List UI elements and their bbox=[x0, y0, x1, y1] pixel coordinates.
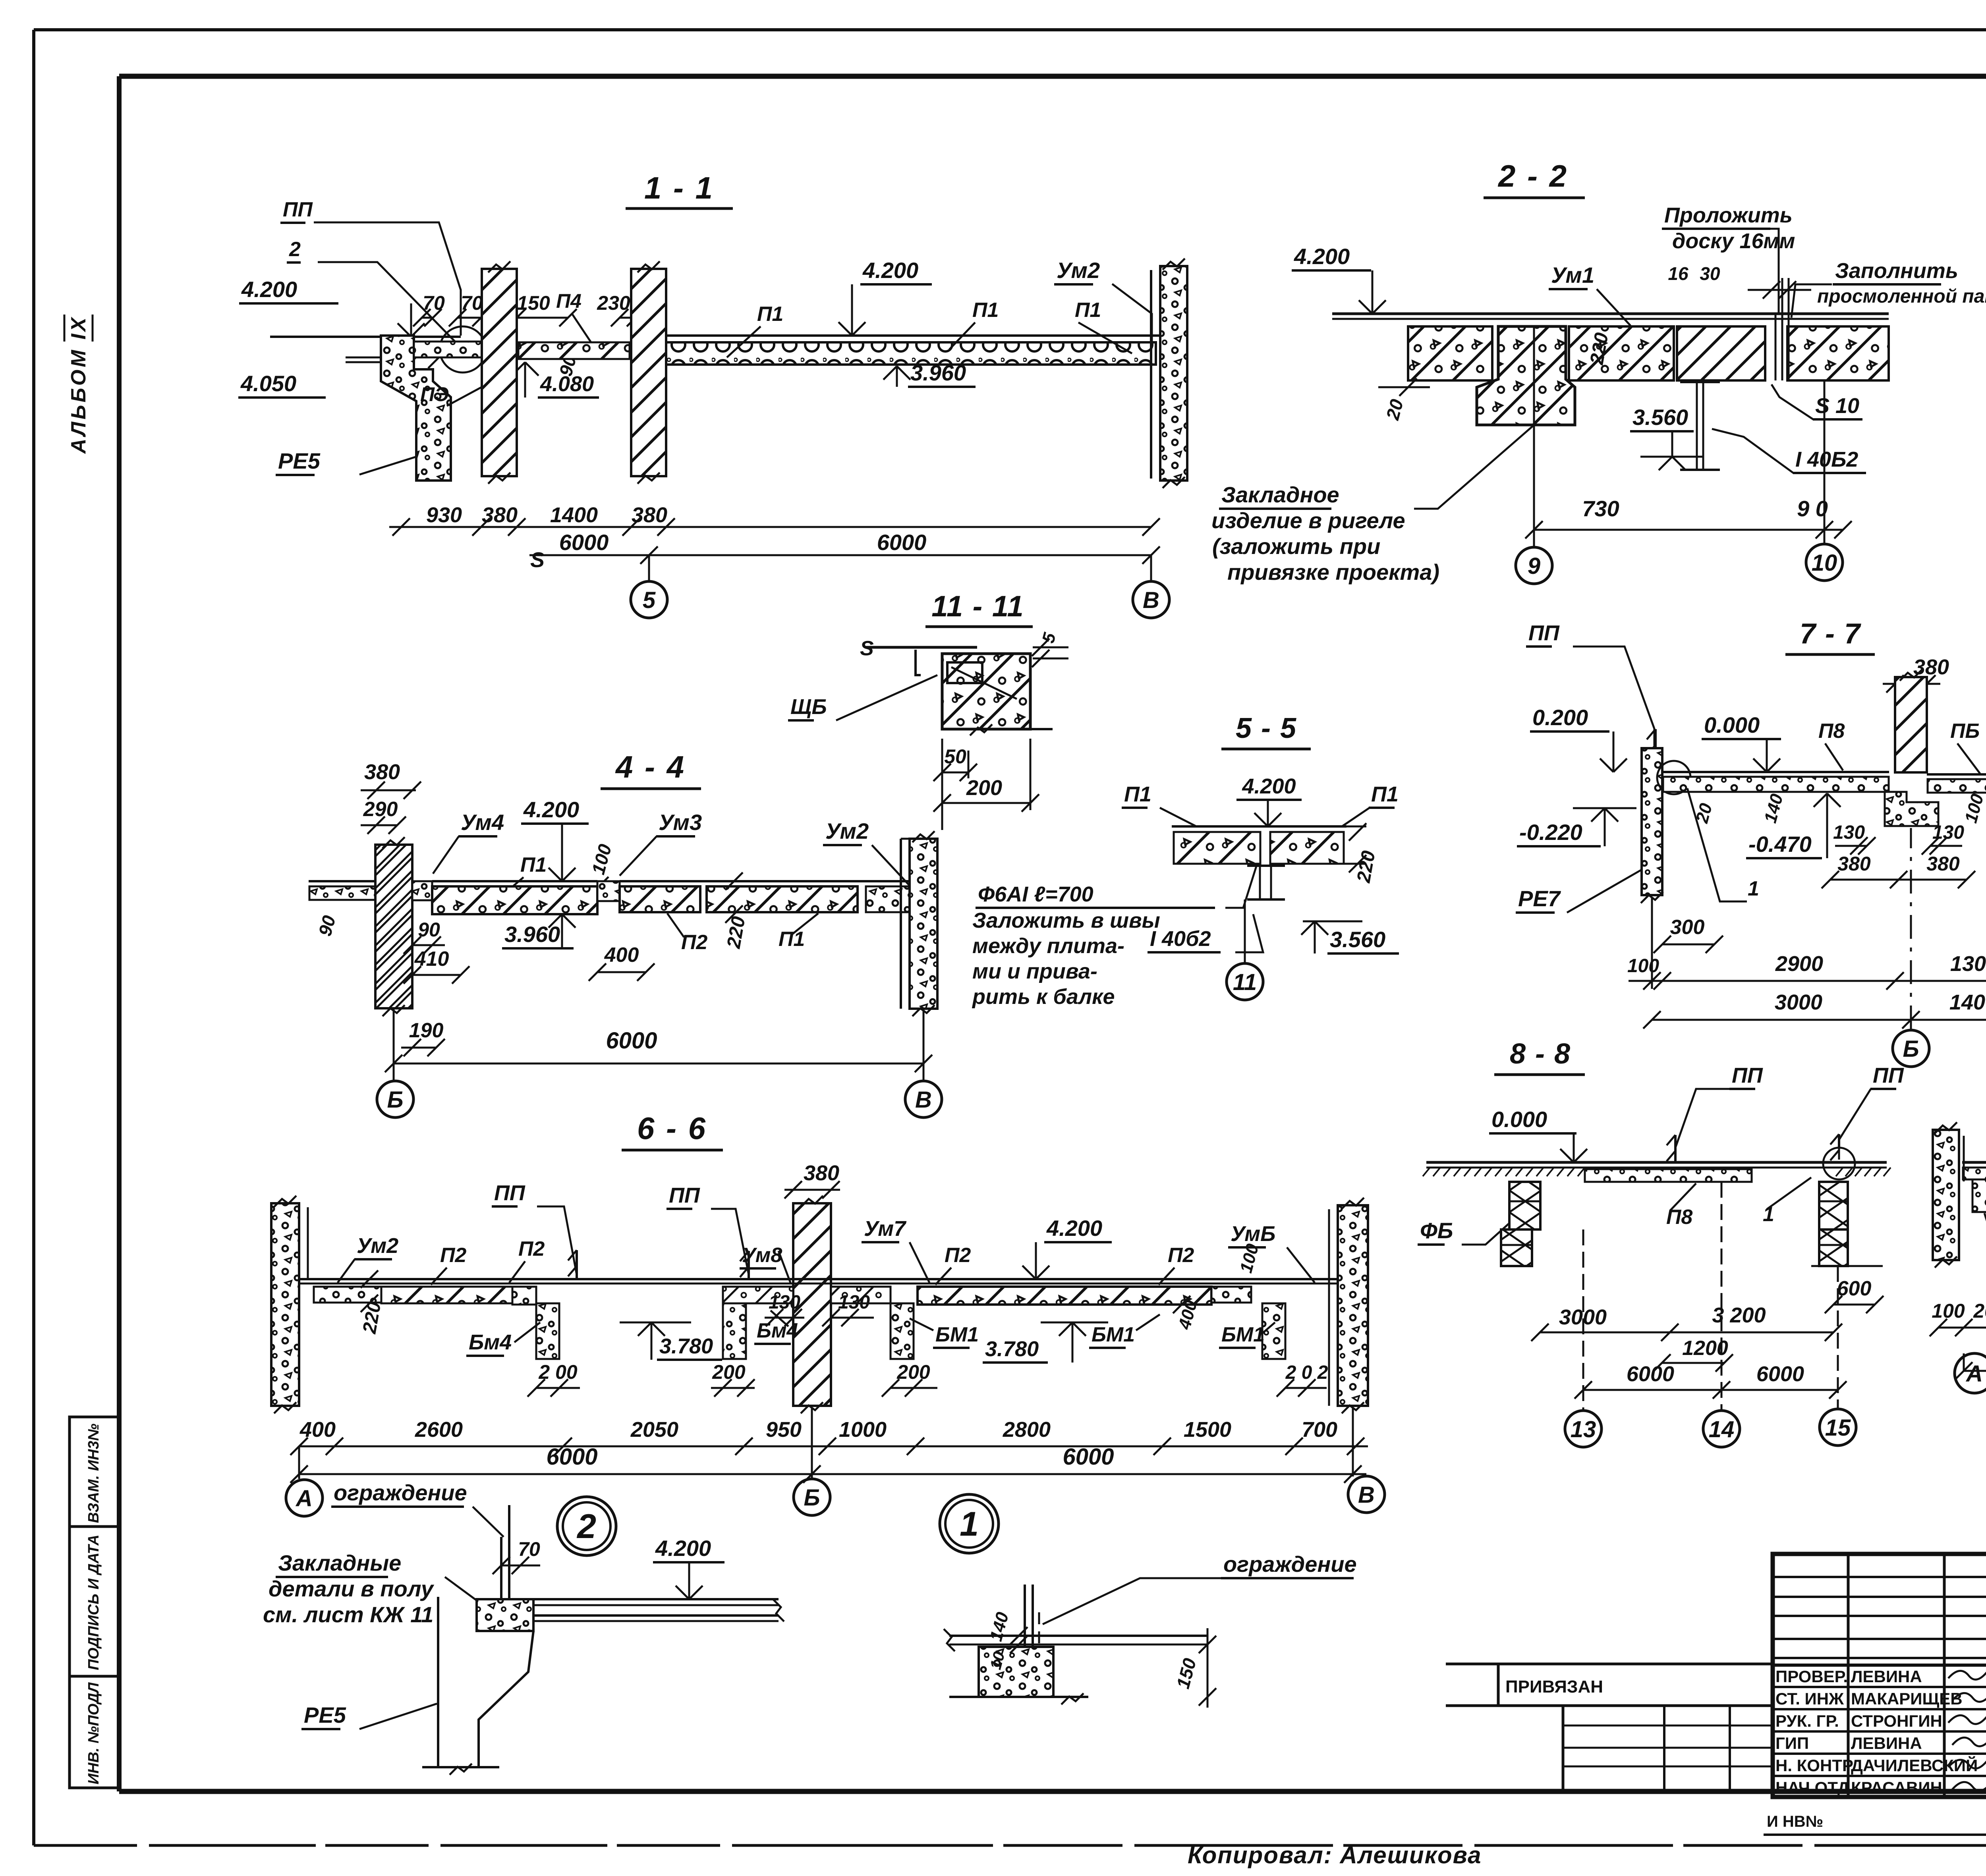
svg-text:S: S bbox=[530, 548, 545, 572]
svg-text:1000: 1000 bbox=[839, 1418, 887, 1442]
svg-text:2050: 2050 bbox=[630, 1418, 678, 1442]
svg-text:11 - 11: 11 - 11 bbox=[931, 590, 1024, 623]
svg-text:П2: П2 bbox=[945, 1244, 971, 1267]
svg-text:100: 100 bbox=[1627, 955, 1659, 977]
svg-text:И НВ№: И НВ№ bbox=[1767, 1813, 1823, 1830]
svg-text:2: 2 bbox=[576, 1507, 596, 1546]
svg-text:П2: П2 bbox=[1168, 1244, 1194, 1267]
svg-text:П1: П1 bbox=[757, 303, 783, 326]
svg-text:I 40Б2: I 40Б2 bbox=[1795, 448, 1858, 471]
svg-text:9 0: 9 0 bbox=[1797, 496, 1828, 521]
svg-text:Заполнить: Заполнить bbox=[1835, 259, 1958, 283]
svg-text:950: 950 bbox=[766, 1418, 802, 1442]
svg-text:ФБ: ФБ bbox=[1420, 1218, 1453, 1243]
svg-text:4 - 4: 4 - 4 bbox=[615, 749, 686, 784]
svg-text:1: 1 bbox=[960, 1505, 979, 1543]
svg-text:-0.220: -0.220 bbox=[1519, 820, 1582, 845]
svg-text:380: 380 bbox=[1837, 853, 1871, 875]
svg-text:Ум7: Ум7 bbox=[864, 1217, 907, 1241]
svg-text:Б: Б bbox=[387, 1087, 403, 1113]
svg-text:ИНВ. №ПОДЛ: ИНВ. №ПОДЛ bbox=[85, 1682, 102, 1785]
svg-text:200: 200 bbox=[896, 1361, 930, 1383]
svg-text:НАЧ ОТД: НАЧ ОТД bbox=[1775, 1778, 1849, 1797]
svg-text:6000: 6000 bbox=[1627, 1362, 1674, 1386]
svg-text:СТРОНГИН: СТРОНГИН bbox=[1851, 1712, 1942, 1730]
svg-text:0.200: 0.200 bbox=[1532, 705, 1588, 730]
svg-text:730: 730 bbox=[1582, 496, 1619, 521]
svg-text:П1: П1 bbox=[1371, 782, 1399, 806]
svg-text:6000: 6000 bbox=[1063, 1444, 1114, 1470]
svg-text:15: 15 bbox=[1825, 1415, 1851, 1441]
svg-text:Закладные: Закладные bbox=[278, 1550, 401, 1575]
svg-text:ПРОВЕР.: ПРОВЕР. bbox=[1775, 1667, 1848, 1686]
svg-text:П1: П1 bbox=[1124, 782, 1151, 806]
svg-text:привязке проекта): привязке проекта) bbox=[1227, 560, 1439, 585]
svg-text:4.200: 4.200 bbox=[241, 277, 297, 302]
svg-text:АЛЬБОМ IX: АЛЬБОМ IX bbox=[67, 315, 90, 454]
svg-text:30: 30 bbox=[1700, 263, 1720, 284]
svg-text:3.960: 3.960 bbox=[910, 360, 966, 385]
svg-text:П1: П1 bbox=[779, 928, 805, 951]
svg-text:-0.470: -0.470 bbox=[1748, 832, 1812, 857]
svg-text:6000: 6000 bbox=[559, 530, 609, 555]
svg-text:ми и прива-: ми и прива- bbox=[972, 959, 1097, 983]
svg-text:П8: П8 bbox=[1818, 720, 1845, 743]
svg-text:930: 930 bbox=[426, 503, 462, 527]
svg-text:6 - 6: 6 - 6 bbox=[637, 1111, 707, 1146]
svg-text:П2: П2 bbox=[440, 1244, 466, 1267]
svg-text:РЕ5: РЕ5 bbox=[278, 448, 321, 473]
svg-text:1300: 1300 bbox=[1950, 952, 1986, 976]
svg-text:3.560: 3.560 bbox=[1632, 405, 1688, 430]
svg-text:4.200: 4.200 bbox=[1294, 244, 1350, 269]
svg-text:В: В bbox=[915, 1087, 932, 1113]
svg-text:Копировал: Алешикова: Копировал: Алешикова bbox=[1188, 1842, 1482, 1868]
svg-text:2 0 2: 2 0 2 bbox=[1285, 1362, 1328, 1383]
svg-text:4.050: 4.050 bbox=[240, 371, 296, 396]
svg-text:2900: 2900 bbox=[1775, 952, 1823, 976]
svg-text:4.200: 4.200 bbox=[655, 1536, 711, 1561]
svg-text:ПП: ПП bbox=[1873, 1063, 1904, 1087]
svg-text:4.200: 4.200 bbox=[1242, 774, 1296, 798]
svg-text:ЛЕВИНА: ЛЕВИНА bbox=[1851, 1667, 1922, 1686]
svg-text:Бм4: Бм4 bbox=[469, 1330, 512, 1354]
svg-text:290: 290 bbox=[363, 798, 398, 821]
svg-text:ПП: ПП bbox=[283, 198, 313, 221]
svg-text:1400: 1400 bbox=[1949, 990, 1986, 1014]
svg-text:детали в полу: детали в полу bbox=[269, 1576, 435, 1601]
svg-text:700: 700 bbox=[1302, 1418, 1337, 1442]
svg-text:130: 130 bbox=[838, 1292, 870, 1313]
svg-text:6000: 6000 bbox=[606, 1028, 657, 1054]
svg-text:16: 16 bbox=[1668, 263, 1688, 284]
svg-text:П2: П2 bbox=[681, 931, 707, 954]
svg-text:3.560: 3.560 bbox=[1330, 927, 1385, 952]
svg-text:300: 300 bbox=[1670, 916, 1705, 939]
svg-text:6000: 6000 bbox=[546, 1444, 597, 1470]
svg-text:рить к балке: рить к балке bbox=[972, 985, 1115, 1009]
svg-text:изделие в ригеле: изделие в ригеле bbox=[1211, 508, 1405, 533]
svg-text:Ум2: Ум2 bbox=[1057, 258, 1100, 283]
svg-text:S 10: S 10 bbox=[1815, 394, 1859, 418]
svg-text:Ф6АI ℓ=700: Ф6АI ℓ=700 bbox=[978, 882, 1093, 906]
svg-text:БМ1: БМ1 bbox=[1221, 1323, 1265, 1346]
svg-text:2800: 2800 bbox=[1003, 1418, 1051, 1442]
svg-text:1: 1 bbox=[1763, 1203, 1774, 1226]
svg-text:П1: П1 bbox=[520, 853, 547, 876]
svg-text:1400: 1400 bbox=[550, 503, 598, 527]
svg-text:130: 130 bbox=[1833, 822, 1865, 843]
svg-text:Бм4: Бм4 bbox=[757, 1319, 798, 1342]
svg-text:ГИП: ГИП bbox=[1775, 1734, 1809, 1752]
svg-text:(заложить при: (заложить при bbox=[1212, 534, 1380, 559]
svg-text:ПП: ПП bbox=[1528, 621, 1560, 645]
svg-text:ПОДПИСЬ И ДАТА: ПОДПИСЬ И ДАТА bbox=[85, 1534, 102, 1670]
svg-text:130: 130 bbox=[769, 1292, 800, 1313]
svg-text:ЛЕВИНА: ЛЕВИНА bbox=[1851, 1734, 1922, 1752]
svg-text:150: 150 bbox=[517, 292, 550, 314]
svg-text:БМ1: БМ1 bbox=[935, 1323, 979, 1346]
svg-text:3.780: 3.780 bbox=[659, 1334, 713, 1358]
svg-text:ограждение: ограждение bbox=[1223, 1552, 1357, 1577]
svg-text:2 - 2: 2 - 2 bbox=[1497, 158, 1568, 193]
svg-text:ПБ: ПБ bbox=[1950, 720, 1980, 743]
svg-text:Н. КОНТР: Н. КОНТР bbox=[1775, 1756, 1853, 1775]
svg-text:просмоленной паклей: просмоленной паклей bbox=[1817, 286, 1986, 307]
svg-text:50: 50 bbox=[944, 745, 966, 768]
svg-text:А: А bbox=[1965, 1361, 1983, 1387]
svg-text:200: 200 bbox=[966, 776, 1002, 800]
svg-text:4.200: 4.200 bbox=[1046, 1216, 1102, 1241]
svg-text:ограждение: ограждение bbox=[334, 1480, 467, 1505]
svg-text:380: 380 bbox=[804, 1161, 839, 1185]
svg-text:10: 10 bbox=[1812, 550, 1837, 576]
svg-text:I 40б2: I 40б2 bbox=[1150, 927, 1211, 951]
svg-text:доску 16мм: доску 16мм bbox=[1672, 229, 1795, 253]
svg-text:6000: 6000 bbox=[877, 530, 927, 555]
svg-text:100: 100 bbox=[1932, 1300, 1965, 1322]
svg-text:5 - 5: 5 - 5 bbox=[1236, 712, 1297, 744]
svg-text:ПЭ: ПЭ bbox=[420, 383, 449, 405]
svg-text:РЕ7: РЕ7 bbox=[1518, 886, 1561, 911]
svg-text:ПП: ПП bbox=[669, 1183, 700, 1207]
svg-text:МАКАРИЩЕВ: МАКАРИЩЕВ bbox=[1851, 1689, 1963, 1708]
svg-text:200: 200 bbox=[1973, 1300, 1986, 1322]
svg-text:ПП: ПП bbox=[1732, 1063, 1763, 1087]
svg-text:УмБ: УмБ bbox=[1231, 1222, 1275, 1246]
svg-text:ДАЧИЛЕВСКИЙ: ДАЧИЛЕВСКИЙ bbox=[1851, 1756, 1978, 1775]
svg-text:СТ. ИНЖ: СТ. ИНЖ bbox=[1775, 1689, 1844, 1708]
svg-text:6000: 6000 bbox=[1756, 1362, 1804, 1386]
svg-text:ЩБ: ЩБ bbox=[790, 695, 827, 719]
svg-text:Закладное: Закладное bbox=[1221, 482, 1339, 507]
svg-text:ВЗАМ. ИН3№: ВЗАМ. ИН3№ bbox=[85, 1424, 102, 1523]
svg-text:Ум3: Ум3 bbox=[659, 810, 702, 835]
svg-text:Б: Б bbox=[1903, 1036, 1919, 1062]
svg-text:3 200: 3 200 bbox=[1712, 1303, 1766, 1327]
svg-text:9: 9 bbox=[1528, 553, 1540, 579]
svg-text:5: 5 bbox=[643, 587, 656, 613]
svg-text:П1: П1 bbox=[972, 299, 999, 322]
svg-text:Ум2: Ум2 bbox=[825, 818, 869, 843]
svg-text:3000: 3000 bbox=[1775, 990, 1822, 1014]
svg-text:Заложить в швы: Заложить в швы bbox=[972, 909, 1160, 932]
svg-text:РУК. ГР.: РУК. ГР. bbox=[1775, 1712, 1839, 1730]
svg-text:13: 13 bbox=[1571, 1417, 1596, 1442]
svg-text:БМ1: БМ1 bbox=[1092, 1323, 1135, 1346]
svg-text:380: 380 bbox=[482, 503, 518, 527]
svg-text:7 - 7: 7 - 7 bbox=[1800, 618, 1861, 650]
svg-text:4.200: 4.200 bbox=[862, 258, 918, 283]
svg-text:380: 380 bbox=[1926, 853, 1960, 875]
svg-text:П2: П2 bbox=[518, 1237, 545, 1260]
svg-text:S: S bbox=[860, 637, 874, 660]
svg-text:А: А bbox=[295, 1486, 313, 1511]
svg-text:380: 380 bbox=[1913, 655, 1949, 679]
svg-text:В: В bbox=[1358, 1482, 1375, 1508]
svg-text:между плита-: между плита- bbox=[972, 934, 1124, 958]
svg-text:11: 11 bbox=[1233, 969, 1257, 995]
svg-text:В: В bbox=[1143, 587, 1159, 613]
svg-text:1500: 1500 bbox=[1184, 1418, 1231, 1442]
svg-text:190: 190 bbox=[409, 1019, 444, 1042]
svg-text:ПРИВЯЗАН: ПРИВЯЗАН bbox=[1505, 1677, 1603, 1697]
svg-text:1: 1 bbox=[1748, 877, 1759, 900]
svg-text:400: 400 bbox=[604, 944, 639, 967]
svg-text:14: 14 bbox=[1709, 1417, 1735, 1442]
svg-text:Ум2: Ум2 bbox=[357, 1234, 398, 1258]
svg-text:3.780: 3.780 bbox=[985, 1337, 1039, 1361]
svg-text:П1: П1 bbox=[1075, 299, 1101, 322]
svg-text:Проложить: Проложить bbox=[1664, 203, 1793, 227]
svg-text:П4: П4 bbox=[556, 290, 582, 312]
svg-text:8 - 8: 8 - 8 bbox=[1510, 1038, 1571, 1070]
svg-text:400: 400 bbox=[299, 1418, 336, 1442]
svg-text:РЕ5: РЕ5 bbox=[304, 1702, 346, 1727]
svg-text:200: 200 bbox=[712, 1361, 746, 1383]
svg-text:70: 70 bbox=[423, 292, 445, 314]
svg-text:0.000: 0.000 bbox=[1491, 1107, 1547, 1132]
svg-text:4.200: 4.200 bbox=[523, 797, 579, 822]
svg-text:Ум4: Ум4 bbox=[461, 810, 504, 835]
svg-text:Ум1: Ум1 bbox=[1551, 262, 1594, 288]
svg-text:КРАСАВИН: КРАСАВИН bbox=[1851, 1778, 1942, 1797]
svg-text:2600: 2600 bbox=[415, 1418, 463, 1442]
svg-text:2: 2 bbox=[289, 238, 301, 261]
svg-text:ПП: ПП bbox=[494, 1181, 525, 1205]
svg-text:1 - 1: 1 - 1 bbox=[644, 170, 714, 205]
svg-text:см. лист КЖ 11: см. лист КЖ 11 bbox=[263, 1602, 433, 1627]
svg-text:Б: Б bbox=[804, 1485, 820, 1511]
svg-text:380: 380 bbox=[364, 760, 400, 784]
svg-text:0.000: 0.000 bbox=[1704, 712, 1760, 737]
svg-text:380: 380 bbox=[632, 503, 667, 527]
